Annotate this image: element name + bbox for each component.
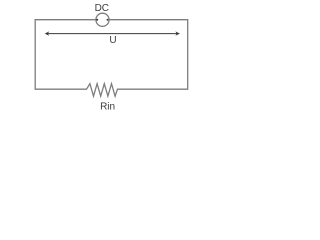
svg-text:Rin: Rin [100, 102, 115, 113]
svg-text:U: U [109, 35, 116, 46]
svg-text:DC: DC [95, 3, 109, 14]
